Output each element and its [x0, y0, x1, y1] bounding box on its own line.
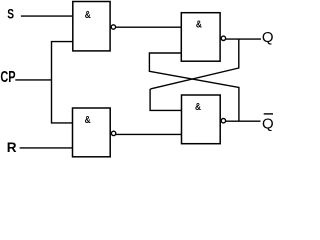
svg-text:&: & [85, 10, 91, 21]
svg-text:&: & [85, 115, 91, 126]
svg-text:&: & [196, 20, 202, 31]
svg-text:CP: CP [0, 69, 15, 86]
svg-text:Q: Q [262, 29, 274, 46]
svg-text:&: & [195, 102, 201, 113]
svg-text:S: S [7, 6, 14, 22]
svg-text:R: R [7, 139, 17, 155]
svg-text:Q: Q [262, 115, 274, 132]
